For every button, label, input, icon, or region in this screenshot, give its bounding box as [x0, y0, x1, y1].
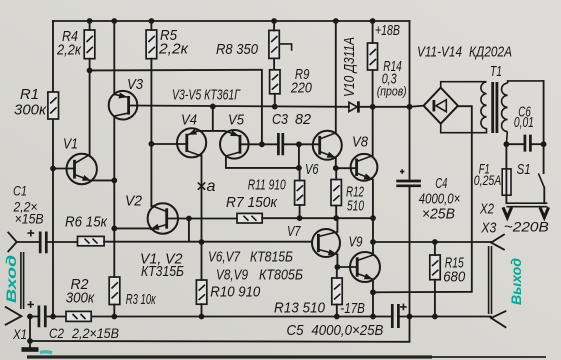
svg-text:4000,0×25В: 4000,0×25В	[311, 323, 383, 339]
node a marker	[198, 178, 216, 195]
wire V6 emitter node to V8 base	[336, 167, 357, 169]
svg-text:82: 82	[295, 111, 312, 128]
capacitor C4	[396, 21, 421, 317]
svg-text:V1: V1	[63, 136, 78, 153]
junction R11 bottom	[297, 215, 303, 221]
junction V9 collector / output node	[370, 239, 376, 245]
resistor R3	[109, 277, 120, 305]
junction ground rail left end	[27, 338, 33, 344]
junction C5 right / C4 line / ground rail	[407, 314, 413, 320]
input connector X1 upper pin arrow	[8, 233, 16, 252]
transistor V5	[220, 130, 300, 168]
svg-text:2,2×15В: 2,2×15В	[71, 325, 119, 341]
resistor R15	[430, 255, 440, 280]
svg-text:×25В: ×25В	[422, 207, 455, 223]
switch S1	[538, 173, 544, 203]
resistor R1	[48, 92, 59, 119]
ground rail wire	[30, 317, 410, 342]
C1 polarity +	[27, 230, 34, 237]
mains plug pin arrow X2	[503, 207, 512, 217]
top +18V rail wire	[53, 20, 410, 22]
svg-text:V6: V6	[305, 161, 319, 178]
output connector upper pin arrow	[491, 235, 504, 250]
junction V9 emitter link	[370, 314, 376, 320]
output node wire	[373, 241, 491, 243]
junction C6 left / fuse line	[504, 141, 510, 147]
junction V4 base / V2 collector line	[149, 141, 155, 147]
svg-text:220: 220	[290, 79, 312, 96]
input connector X1 lower pin arrow	[6, 307, 22, 325]
input cable double line	[21, 252, 24, 309]
V4/V5 emitter rail wire	[198, 106, 225, 130]
transistor V1	[53, 70, 114, 184]
svg-text:X2: X2	[479, 202, 494, 218]
svg-text:R10 910: R10 910	[210, 285, 260, 301]
svg-text:V2: V2	[125, 193, 143, 210]
teal smudge mark bottom left	[40, 350, 52, 354]
svg-text:R8 350: R8 350	[216, 41, 259, 58]
svg-text:2,2к: 2,2к	[56, 42, 82, 59]
junction C6 right / switch line	[541, 141, 547, 147]
svg-text:R11 910: R11 910	[248, 178, 286, 194]
junction V1 base / R1 line	[50, 166, 56, 172]
output cable double line	[489, 246, 492, 314]
svg-text:300к: 300к	[66, 291, 96, 307]
junction V2 base / R6 link	[186, 216, 192, 222]
junction bridge plus / C4 line	[407, 104, 413, 110]
secondary (right) winding	[502, 83, 508, 131]
V2 base wire to R7	[189, 217, 373, 219]
primary (left) winding	[441, 82, 487, 129]
junction V2 emitter / R3 line	[111, 226, 117, 232]
diode V10	[349, 101, 359, 112]
transistor V9	[350, 218, 380, 316]
junction top rail V6 collector	[333, 18, 339, 24]
junction top rail R14	[370, 18, 376, 24]
left frame wire (R1 chain)	[52, 21, 54, 317]
junction V5 collector / R11 top	[296, 165, 302, 171]
svg-text:V7: V7	[287, 223, 301, 240]
svg-text:X3: X3	[480, 220, 496, 236]
capacitor C1	[17, 241, 39, 243]
transformer T1	[441, 81, 544, 144]
svg-text:V6,V7: V6,V7	[208, 250, 241, 266]
resistor R6	[78, 236, 105, 245]
transistor V4	[151, 128, 206, 242]
junction V1 emitter / V3 collector line	[111, 178, 117, 184]
capacitor C3	[262, 133, 299, 155]
resistor R8	[269, 30, 279, 58]
svg-text:Выход: Выход	[509, 258, 524, 305]
svg-text:X1: X1	[12, 327, 27, 342]
svg-text:~220В: ~220В	[504, 220, 549, 235]
mains plug pin arrow X3	[540, 207, 549, 217]
switch S1 upper lead wire	[543, 81, 545, 173]
svg-text:V10 Д311А: V10 Д311А	[342, 37, 358, 97]
svg-text:V3: V3	[127, 76, 144, 93]
svg-text:R3 10к: R3 10к	[126, 292, 157, 308]
svg-text:R13 510: R13 510	[274, 301, 325, 317]
V1-V3 chain vertical wire	[113, 21, 115, 317]
svg-text:КТ315Б: КТ315Б	[141, 264, 184, 280]
svg-text:4000,0×: 4000,0×	[419, 192, 461, 208]
resistor R10	[196, 280, 206, 304]
svg-text:Т1: Т1	[490, 64, 502, 80]
wire V7 emitter node to V9 base	[337, 266, 357, 268]
junction C3 right / V6 base	[296, 141, 302, 147]
svg-text:С1: С1	[13, 184, 27, 199]
junction V8 emitter	[370, 215, 376, 221]
X1 ground stem wire	[29, 317, 31, 348]
resistor R7	[237, 213, 262, 223]
junction R15 bottom	[432, 314, 438, 320]
junction C3 left / V5 base	[259, 141, 265, 147]
junction R12 bottom / V7 collector	[333, 215, 339, 221]
junction V6 emitter / V8 base / R12 top	[333, 165, 339, 171]
transistor V2	[114, 144, 189, 234]
junction V7 emitter / V9 base / R13 top	[335, 264, 341, 270]
svg-text:V3-V5 КТ361Г: V3-V5 КТ361Г	[172, 87, 241, 104]
junction V3 base wire / emitter rail feed	[210, 104, 216, 110]
junction R4 bottom / V1 collector	[87, 68, 93, 74]
svg-text:0,25А: 0,25А	[474, 173, 502, 188]
svg-text:С5: С5	[287, 323, 305, 339]
mains cord double line	[506, 203, 547, 207]
svg-text:510: 510	[347, 199, 364, 215]
capacitor C2	[39, 306, 45, 328]
bridge rectifier V11-V14	[410, 88, 458, 124]
junction R1 line / C2 wire	[50, 314, 56, 320]
resistor R12	[331, 180, 341, 206]
svg-text:-17В: -17В	[340, 301, 365, 317]
transistor V8	[351, 107, 378, 218]
fuse F1	[502, 144, 511, 203]
junction R9 bottom	[272, 104, 278, 110]
junction R14 / diode V10 / V8 collector	[370, 104, 376, 110]
transistor V7	[312, 218, 340, 267]
svg-text:Вход: Вход	[4, 255, 19, 303]
junction top rail R4	[87, 18, 93, 24]
bottom border line	[27, 355, 432, 358]
svg-text:V9: V9	[349, 234, 363, 251]
resistor R5	[146, 30, 157, 59]
resistor R4	[84, 30, 95, 59]
svg-text:КД202А: КД202А	[469, 44, 512, 61]
svg-text:a: a	[207, 178, 216, 195]
wire C3 node down to R11	[299, 144, 320, 168]
capacitor C6	[506, 135, 543, 152]
capacitor C5 (electrolytic in bottom wire)	[392, 304, 406, 328]
junction R15 top	[432, 239, 438, 245]
junction R13 bottom	[334, 314, 340, 320]
svg-text:0,01: 0,01	[514, 115, 534, 131]
junction R10 bottom	[199, 314, 205, 320]
svg-text:(пров): (пров)	[377, 84, 407, 99]
transistor V3	[109, 91, 138, 120]
svg-text:V11-V14: V11-V14	[417, 44, 462, 61]
resistor R14	[368, 43, 378, 70]
C2 polarity +	[27, 301, 34, 308]
svg-text:КТ815Б: КТ815Б	[250, 250, 293, 266]
svg-text:2,2к: 2,2к	[158, 41, 189, 58]
junction top rail V3 emitter	[111, 18, 117, 24]
svg-text:V5: V5	[228, 112, 245, 129]
bridge minus return wire	[373, 106, 472, 292]
svg-text:300к: 300к	[14, 102, 47, 119]
ground symbol	[22, 347, 39, 352]
svg-text:V8: V8	[352, 134, 369, 151]
output connector lower pin arrow	[491, 311, 505, 327]
svg-text:КТ805Б: КТ805Б	[259, 268, 303, 284]
svg-text:R1: R1	[20, 86, 39, 103]
base wire V3 to bridge (long y=106.5)	[129, 106, 410, 107]
svg-text:С3: С3	[272, 111, 289, 128]
wire R4 bottom to C3 elbow	[90, 70, 262, 145]
R8 side tap hook	[279, 44, 291, 51]
junction top rail R8	[271, 18, 277, 24]
svg-text:R6 15к: R6 15к	[65, 215, 108, 231]
svg-text:+18В: +18В	[375, 23, 400, 39]
resistor R9	[270, 70, 280, 94]
junction V9 emitter / bridge minus wire	[370, 289, 376, 295]
junction X1 / ground stem	[27, 314, 33, 320]
resistor R2	[66, 311, 91, 321]
svg-text:×15В: ×15В	[15, 212, 44, 227]
resistor R13	[332, 278, 342, 305]
junction V4 collector / V7 base / R10 top	[199, 239, 205, 245]
svg-text:R7 150к: R7 150к	[226, 195, 278, 211]
transistor V6	[313, 21, 342, 168]
svg-text:С4: С4	[435, 176, 447, 192]
bottom long wire y=316.5	[30, 316, 491, 318]
core	[493, 82, 497, 133]
svg-text:680: 680	[443, 270, 465, 286]
wire C1/R6 to V2 base elbow and V7 base	[104, 219, 312, 242]
junction R3 bottom	[111, 314, 117, 320]
junction top rail R5	[149, 18, 155, 24]
svg-text:С2: С2	[49, 325, 64, 341]
svg-text:V8,V9: V8,V9	[216, 268, 248, 284]
svg-text:V4: V4	[181, 112, 197, 129]
svg-text:S1: S1	[517, 162, 531, 178]
resistor R11	[295, 181, 305, 206]
